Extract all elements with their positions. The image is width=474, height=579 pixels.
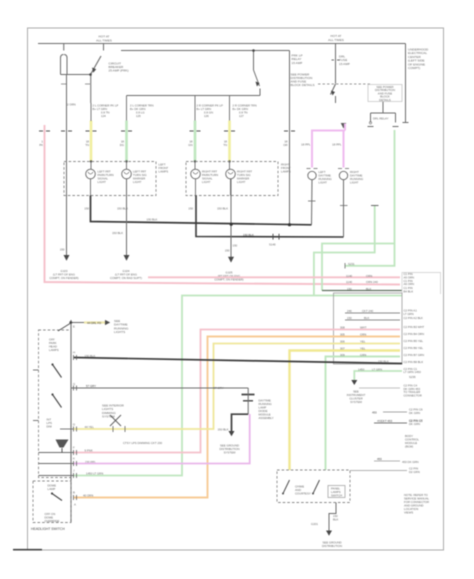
relay bracket (371, 112, 396, 114)
svg-text:307: 307 (340, 347, 345, 351)
svg-text:S235: S235 (409, 375, 416, 379)
svg-text:15 AMP: 15 AMP (292, 61, 303, 65)
row H yellow from switch (73, 344, 400, 430)
svg-text:C2 PIN A2 BLK: C2 PIN A2 BLK (404, 316, 424, 320)
svg-text:LT GRN: LT GRN (372, 367, 382, 371)
connector box right (334, 293, 403, 364)
headlight switch box (39, 330, 72, 478)
text wire labels (39, 140, 288, 148)
row E (345, 312, 400, 314)
lamp DRL left (308, 171, 316, 179)
svg-text:150: 150 (188, 207, 193, 211)
junction dots (252, 49, 255, 52)
svg-text:A: A (74, 503, 76, 507)
svg-text:LIGHT: LIGHT (319, 181, 328, 185)
svg-text:H: H (73, 351, 75, 355)
wire hazard gnd (329, 503, 336, 532)
svg-text:ASSEMBLY: ASSEMBLY (259, 416, 274, 420)
svg-text:453 DK GRN: 453 DK GRN (402, 460, 419, 464)
svg-text:127: 127 (239, 114, 244, 118)
svg-text:1450 LT GRN: 1450 LT GRN (86, 472, 103, 476)
svg-text:150: 150 (60, 248, 65, 252)
wire bus2 ground (196, 196, 344, 238)
rheostat (56, 440, 69, 448)
svg-text:150: 150 (233, 244, 238, 248)
svg-text:YEL: YEL (360, 340, 366, 344)
svg-text:44 DRL FD: 44 DRL FD (87, 321, 101, 325)
wire DRL left gnd (311, 180, 314, 225)
svg-text:150 BLK: 150 BLK (85, 354, 96, 358)
svg-text:ALL TIMES: ALL TIMES (328, 38, 344, 42)
right text column (404, 272, 425, 397)
svg-text:C2 PIN B7 GRN: C2 PIN B7 GRN (404, 353, 425, 357)
svg-text:453: 453 (377, 419, 382, 423)
svg-text:YEL: YEL (360, 347, 366, 351)
svg-text:B: B (73, 491, 75, 495)
svg-text:150 BLK: 150 BLK (378, 360, 389, 364)
svg-text:LT GRN 1450: LT GRN 1450 (404, 370, 422, 374)
svg-text:BLK: BLK (364, 316, 369, 320)
bulb box2 (186, 162, 278, 196)
svg-text:F: F (73, 446, 75, 450)
node B+ feed (38, 43, 406, 45)
lamp DRL right (339, 171, 347, 179)
svg-text:DISTRIBUTION: DISTRIBUTION (322, 544, 342, 548)
wire fuse2 drop (335, 44, 337, 84)
svg-text:CTSY LPS DIMMING CKT 230: CTSY LPS DIMMING CKT 230 (123, 441, 163, 445)
inside wires (39, 429, 75, 476)
wire green D row from switch (74, 296, 402, 476)
svg-text:57 GRY: 57 GRY (213, 386, 223, 390)
svg-text:K: K (73, 457, 75, 461)
svg-text:GRN: GRN (360, 353, 366, 357)
connector ticks y131 (39, 130, 295, 132)
fuse block bottom dashes (318, 83, 372, 85)
hazard box (277, 470, 350, 503)
text right low blocks (402, 419, 429, 514)
row J green to hazard (326, 357, 401, 471)
svg-text:150: 150 (225, 249, 230, 253)
text ground labels (49, 269, 243, 282)
svg-text:150 BLK: 150 BLK (217, 207, 228, 211)
wire LF turn gnd (126, 179, 128, 257)
text underhood block (408, 48, 429, 71)
TOPSECTION (38, 44, 409, 225)
svg-text:150: 150 (347, 287, 352, 291)
svg-text:(BCM): (BCM) (405, 445, 413, 449)
svg-text:ORN: ORN (360, 333, 366, 337)
svg-text:DETAILS: DETAILS (379, 98, 391, 102)
svg-text:DIM: DIM (47, 425, 53, 429)
svg-text:44 YEL: 44 YEL (85, 425, 95, 429)
text circuit blobs (93, 104, 257, 119)
wire sw stub left (33, 420, 39, 422)
connector label frame (402, 273, 441, 295)
svg-text:150 BLK: 150 BLK (243, 233, 254, 237)
svg-text:ALL TIMES: ALL TIMES (96, 39, 112, 43)
breaker CB1 (61, 55, 68, 75)
wire green R park (194, 96, 196, 122)
arrowheads (92, 68, 96, 73)
svg-text:C2 PIN B8 BLK: C2 PIN B8 BLK (404, 360, 424, 364)
svg-text:COURTESY: COURTESY (295, 492, 311, 496)
wire RF turn gnd (230, 179, 232, 259)
text small labels (60, 207, 230, 253)
svg-text:TN: TN (85, 143, 89, 147)
row L green w arrow (354, 371, 402, 381)
blade lower box (51, 492, 53, 494)
svg-text:453: 453 (372, 411, 377, 415)
svg-text:LIGHT: LIGHT (350, 181, 359, 185)
svg-text:SWITCH: SWITCH (331, 494, 342, 498)
svg-text:DG: DG (120, 143, 124, 147)
svg-text:LIGHT: LIGHT (237, 180, 246, 184)
svg-text:25 AMP (PRK): 25 AMP (PRK) (109, 69, 129, 73)
svg-text:SYSTEM: SYSTEM (350, 400, 362, 404)
switch blade E (58, 324, 70, 332)
svg-text:GN: GN (188, 143, 192, 147)
text fuse2 label (339, 55, 350, 66)
wire yellow R turn (229, 96, 231, 122)
svg-text:C2 PIN B3 WHT: C2 PIN B3 WHT (404, 325, 425, 329)
text see ground (219, 444, 239, 455)
svg-text:1140: 1140 (346, 280, 353, 284)
bus2 inline conn (272, 234, 274, 240)
svg-text:C2 PIN B6 YEL: C2 PIN B6 YEL (404, 346, 424, 350)
text lamp labels (98, 170, 253, 185)
diode D1 (242, 394, 255, 396)
row G orange from switch (74, 337, 400, 498)
switch lower box (33, 481, 71, 523)
wire yellow L park (90, 121, 93, 162)
row M (359, 387, 400, 389)
conn ticks DRL lamps (307, 168, 350, 170)
lamp LF turn (122, 169, 132, 179)
svg-text:SYSTEM: SYSTEM (224, 451, 236, 455)
text diode right (259, 399, 274, 421)
svg-text:BLK: BLK (366, 287, 371, 291)
switch blade S1 (91, 56, 102, 75)
svg-text:LIGHT: LIGHT (202, 180, 211, 184)
svg-text:G: G (73, 382, 75, 386)
sw pin ticks (74, 355, 126, 500)
svg-text:306: 306 (340, 340, 345, 344)
svg-text:150 BLK: 150 BLK (147, 218, 158, 222)
svg-text:C2 PIN C5: C2 PIN C5 (409, 419, 423, 423)
pin letters (73, 325, 76, 507)
svg-text:S140: S140 (269, 243, 276, 247)
svg-text:C2 PIN B5 YEL: C2 PIN B5 YEL (404, 339, 424, 343)
row misc right low (383, 411, 407, 413)
text see interior (102, 404, 125, 419)
svg-text:LAMPS: LAMPS (49, 348, 59, 352)
svg-text:125: 125 (136, 114, 141, 118)
text DRL lamps (319, 170, 364, 185)
wire black CB down (66, 75, 68, 258)
svg-text:126: 126 (204, 114, 209, 118)
text relay note (291, 54, 315, 88)
wire DRL right gnd (343, 180, 345, 237)
lamp RF park (191, 169, 201, 179)
svg-text:LIGHT: LIGHT (98, 180, 107, 184)
wire green A2 branch (345, 244, 395, 266)
svg-text:1140: 1140 (346, 274, 353, 278)
svg-text:DRL RELAY: DRL RELAY (373, 117, 389, 121)
wire magenta DRL (312, 124, 345, 168)
text breaker label (109, 62, 129, 73)
svg-text:LIGHTS: LIGHTS (114, 330, 125, 334)
svg-text:C2 PIN B4 ORN: C2 PIN B4 ORN (404, 332, 425, 336)
svg-text:LAMP: LAMP (48, 487, 56, 491)
svg-text:OR: OR (283, 143, 287, 147)
wire green A row C (322, 130, 395, 291)
svg-text:150 BLK: 150 BLK (117, 207, 128, 211)
svg-text:150: 150 (347, 316, 352, 320)
svg-text:18 PPL: 18 PPL (332, 143, 342, 147)
ground G1 (64, 255, 70, 261)
svg-text:CONNECTOR: CONNECTOR (404, 393, 422, 397)
switch blade S2 (253, 51, 255, 71)
svg-text:240: 240 (347, 309, 352, 313)
svg-text:305: 305 (340, 333, 345, 337)
svg-text:2 ORN: 2 ORN (67, 103, 76, 107)
svg-text:CKT 240: CKT 240 (362, 309, 374, 313)
svg-text:TN: TN (223, 143, 227, 147)
sw blade 2 (51, 393, 53, 395)
svg-text:OVERRIDE: OVERRIDE (45, 519, 60, 523)
svg-text:150 BLK: 150 BLK (112, 231, 123, 235)
svg-text:D: D (73, 423, 75, 427)
svg-text:LAMPS: LAMPS (159, 170, 169, 174)
text inside switch (45, 338, 60, 524)
text HOT AT ALL TIMES L (96, 34, 344, 43)
wire black diode gnd (232, 414, 249, 431)
lamp LF park (86, 169, 96, 179)
wire pink park feed (45, 125, 401, 285)
svg-text:15 AMP: 15 AMP (339, 62, 350, 66)
svg-text:308: 308 (340, 326, 345, 330)
text green arrow label (347, 390, 366, 405)
svg-text:COMPT, ON RAD SUPT): COMPT, ON RAD SUPT) (110, 276, 142, 280)
svg-text:18 PPL: 18 PPL (301, 143, 311, 147)
svg-text:CKT 453: CKT 453 (381, 419, 393, 423)
svg-text:HEADLIGHT SWITCH: HEADLIGHT SWITCH (31, 527, 65, 531)
splice X (110, 415, 121, 426)
hz blade1 (282, 493, 284, 495)
svg-text:1450: 1450 (358, 367, 365, 371)
svg-text:D2 GRN: D2 GRN (409, 470, 420, 474)
row E2 (345, 319, 400, 321)
note box (368, 85, 402, 102)
lamp RF turn (226, 169, 236, 179)
wire violet from switch (74, 414, 250, 464)
svg-text:ORN: ORN (366, 274, 372, 278)
svg-text:WHT: WHT (360, 326, 367, 330)
wire DRL ref arrow (84, 321, 105, 323)
svg-text:124: 124 (101, 114, 106, 118)
svg-text:E: E (73, 325, 75, 329)
svg-text:B4 BLK: B4 BLK (404, 289, 414, 293)
wire green L turn (126, 96, 128, 122)
row F pink from switch (74, 330, 400, 453)
bulb box1 (64, 162, 156, 196)
dark wire labels on rows (83, 274, 389, 498)
svg-text:S231: S231 (348, 262, 355, 266)
svg-text:57 GRY: 57 GRY (86, 384, 96, 388)
svg-text:G201: G201 (311, 522, 318, 526)
wire bus1 ground (91, 196, 312, 225)
wire green B (314, 206, 375, 296)
wire right drop (405, 44, 407, 123)
svg-text:150 BLK: 150 BLK (218, 428, 229, 432)
svg-text:COMPT, ON FENDER): COMPT, ON FENDER) (49, 276, 78, 280)
svg-text:VIEWS: VIEWS (404, 511, 413, 515)
svg-text:150: 150 (84, 207, 89, 211)
row A pink (148, 276, 400, 278)
arrow DRL feed (341, 123, 347, 129)
svg-text:9 PNK: 9 PNK (85, 449, 93, 453)
row I yellow to hazard (290, 351, 401, 471)
svg-text:DK GRN: DK GRN (409, 411, 420, 415)
wire sw y388 (71, 387, 248, 389)
svg-text:LAMPS: LAMPS (281, 170, 291, 174)
wire park feed down (90, 75, 92, 104)
svg-text:PK: PK (39, 143, 43, 147)
node park header (127, 95, 261, 97)
svg-text:309: 309 (340, 353, 345, 357)
ground G2 (124, 255, 130, 261)
svg-text:COMPT): COMPT) (408, 66, 420, 70)
wire C2 drop (289, 51, 291, 225)
svg-text:40 ORN: 40 ORN (83, 494, 93, 498)
sw blade 1 (51, 363, 53, 365)
svg-text:BLK: BLK (333, 518, 338, 522)
wire (121, 50, 290, 52)
ground G3 (228, 257, 234, 263)
hz blade2 (312, 493, 314, 495)
lamp stubs (91, 162, 231, 196)
svg-text:LIGHT: LIGHT (133, 180, 142, 184)
svg-text:BLOCK DETAILS: BLOCK DETAILS (291, 83, 315, 87)
svg-text:ORN 240: ORN 240 (366, 280, 378, 284)
svg-text:453: 453 (377, 457, 382, 461)
row K black from switch (74, 358, 402, 364)
